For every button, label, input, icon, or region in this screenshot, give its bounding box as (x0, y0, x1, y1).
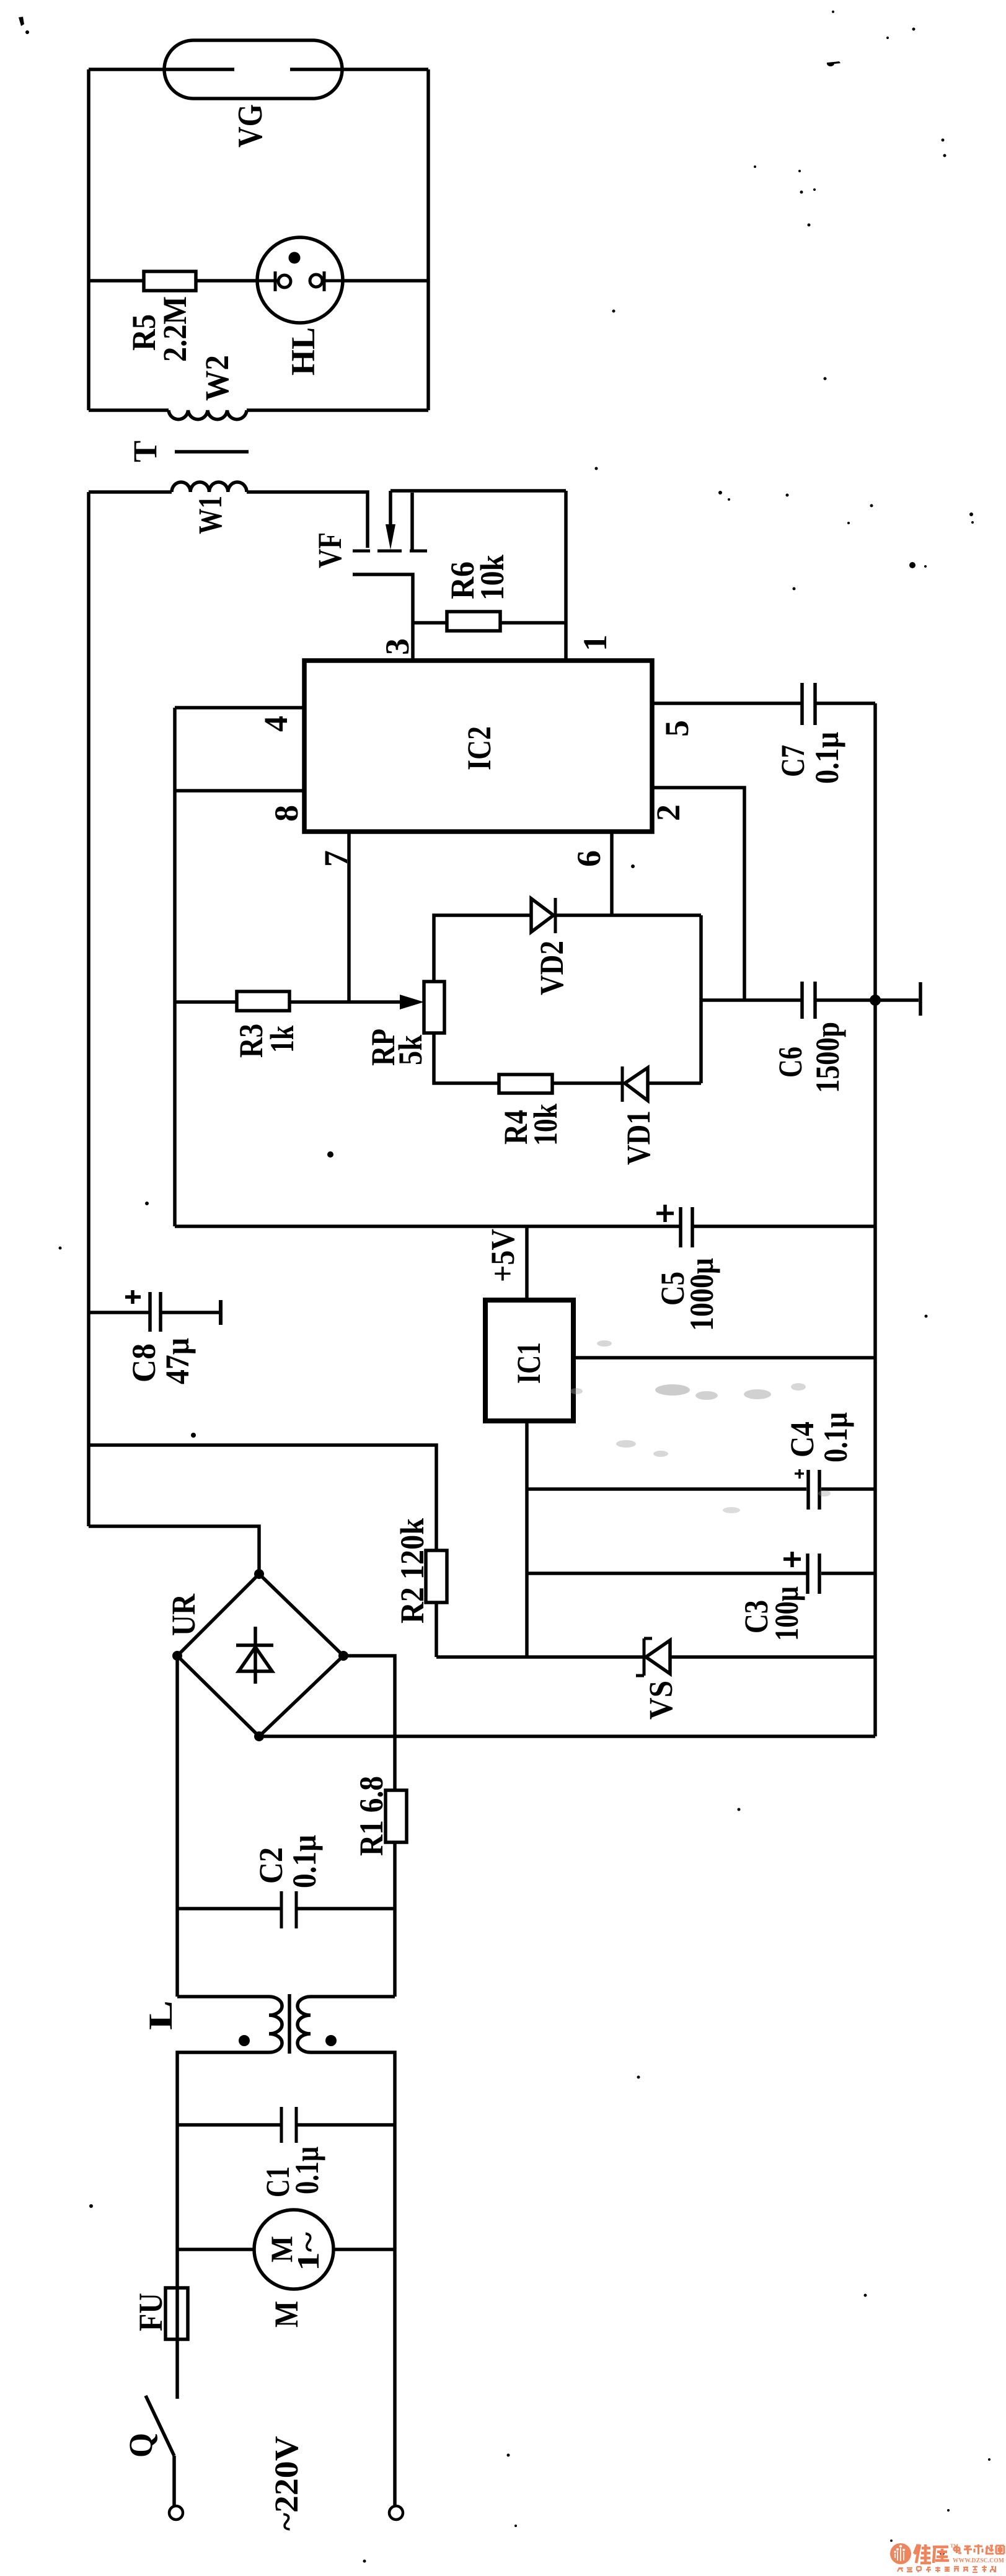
svg-text:C8: C8 (125, 1343, 162, 1383)
svg-text:C2: C2 (252, 1847, 289, 1884)
choke upper-right line (311, 1995, 395, 1998)
wire: motor line right (333, 2248, 395, 2251)
junction dot (870, 995, 881, 1006)
wire: R3 to RP wiper (289, 1000, 403, 1004)
wire: right rail (873, 703, 877, 1736)
svg-text:1: 1 (576, 635, 614, 651)
wire: top edge to VF drain (247, 492, 368, 548)
C8 end terminal bar (219, 1300, 223, 1325)
wire: motor line left (177, 2248, 254, 2251)
svg-text:1~: 1~ (291, 2232, 325, 2271)
svg-text:0.1μ: 0.1μ (288, 2147, 325, 2194)
wire: C8 stub (89, 1311, 150, 1314)
choke lower-right line (311, 2052, 395, 2125)
bridge inner diode (236, 1627, 273, 1684)
wire: pin3 to R6 (413, 621, 447, 625)
svg-text:R1 6.8: R1 6.8 (353, 1776, 390, 1856)
svg-text:5k: 5k (392, 1035, 429, 1065)
wire: bottom edge of upper loop, left part (89, 408, 169, 412)
svg-text:L: L (142, 2000, 179, 2030)
svg-text:1k: 1k (263, 1026, 301, 1053)
wire: VD2 to corner (554, 913, 701, 917)
svg-text:WWW.DZSC.COM: WWW.DZSC.COM (953, 2557, 1004, 2564)
svg-text:10k: 10k (527, 1104, 564, 1146)
slogan row (898, 2565, 995, 2572)
wire: pin 1 vertical (564, 491, 568, 661)
wire: C5 to right rail (692, 1224, 875, 1228)
resistor R5 (144, 271, 196, 291)
capacitor C6 (802, 982, 815, 1019)
C3 plus sign (783, 1552, 801, 1567)
choke L core (288, 1994, 291, 2054)
IC2 box (304, 661, 652, 832)
wire: R2 branch top (89, 1445, 436, 1551)
motor M circle (254, 2210, 333, 2289)
IC1 box (485, 1300, 573, 1421)
zener diode VS (636, 1638, 652, 1676)
wire: C6 to ground junction (815, 998, 919, 1002)
bridge rectifier UR diamond (177, 1574, 343, 1736)
svg-text:C7: C7 (774, 745, 811, 777)
wire: R5 to HL lamp (196, 279, 258, 283)
choke polarity dots (239, 2035, 250, 2046)
capacitor C4 (808, 1470, 819, 1510)
discharge tube VG envelope (164, 40, 342, 99)
wire: pin 8 (175, 789, 304, 793)
svg-text:C4: C4 (783, 1422, 821, 1457)
wire: VF gate top line to pin1 net (390, 489, 566, 493)
resistor R1 (386, 1790, 407, 1842)
C5 plus sign (656, 1205, 674, 1222)
svg-text:1500p: 1500p (809, 1022, 846, 1093)
ground terminal bar (919, 982, 922, 1016)
svg-text:C6: C6 (772, 1047, 809, 1078)
capacitor C1 (281, 2107, 296, 2143)
svg-text:2: 2 (650, 804, 687, 821)
svg-text:~220V: ~220V (268, 2436, 305, 2531)
wire: left rail corner to bridge top (89, 1526, 259, 1574)
svg-text:8: 8 (268, 805, 305, 822)
wire: R3 line from left rail (175, 1000, 237, 1004)
resistor R2 (426, 1550, 447, 1602)
wire: bridge bottom rail (259, 1734, 875, 1738)
wire: left lead to fuse (175, 2249, 179, 2399)
resistor R4 (499, 1075, 552, 1093)
svg-text:T: T (126, 441, 164, 462)
svg-text:100μ: 100μ (768, 1586, 805, 1641)
svg-text:+5V: +5V (484, 1229, 521, 1282)
svg-text:R2 120k: R2 120k (394, 1518, 431, 1624)
wire: VF source strip to pin 3 (353, 574, 413, 661)
svg-text:5: 5 (658, 720, 695, 737)
wire: C4 to rail (821, 1487, 875, 1491)
wire: verticals to choke (177, 1909, 395, 1997)
wire: pin 6 vertical (610, 832, 614, 915)
big char 2 (ku) (933, 2547, 948, 2563)
WATERMARK (940, 2551, 945, 2556)
choke L right winding (298, 1997, 311, 2052)
wire: R2 bottom to VS rail (435, 1602, 438, 1657)
svg-text:0.1μ: 0.1μ (286, 1835, 323, 1888)
logo circle (890, 2543, 911, 2564)
svg-text:6: 6 (570, 850, 607, 867)
switch Q blade (146, 2396, 174, 2456)
wire: left vertical from pin4 down (173, 708, 177, 1226)
wire: top edge right electrode (290, 68, 428, 71)
resistor R6 (447, 612, 500, 631)
svg-text:2.2M: 2.2M (156, 296, 193, 362)
wire: R4 to VD1 (552, 1081, 622, 1085)
wire: HL to right edge (342, 279, 428, 283)
diode VD1 (621, 1066, 624, 1102)
wire: pin 5 to C7 (652, 701, 801, 705)
mosfet VF gate bar (377, 550, 402, 553)
wire: C6 line (701, 998, 801, 1002)
capacitor C3 (808, 1554, 819, 1594)
wire: RP bottom lead to R4 line (434, 1033, 499, 1083)
wire: RP top lead to VD2 line (434, 915, 531, 982)
wire: +5V rail left part (175, 1224, 679, 1228)
svg-text:FU: FU (132, 2293, 169, 2331)
svg-text:4: 4 (257, 716, 294, 732)
svg-text:VS: VS (642, 1681, 679, 1720)
svg-text:3: 3 (379, 638, 416, 655)
mosfet VF drain bar (353, 550, 370, 553)
wire: R1 to C2 line (393, 1842, 397, 1909)
mosfet VF source bar (410, 550, 427, 553)
wire: C2 line (177, 1907, 395, 1910)
wire: upper-right vertical edge (426, 69, 430, 410)
svg-text:VF: VF (311, 532, 348, 568)
wire: C4 line (527, 1487, 806, 1491)
capacitor C2 (281, 1891, 296, 1928)
svg-text:M: M (268, 2301, 305, 2328)
HL left electrode (258, 271, 278, 291)
svg-text:1000μ: 1000μ (683, 1258, 720, 1331)
bridge vertex dots (254, 1569, 264, 1579)
wire: pin 2 to corner (652, 788, 744, 1000)
wire: top edge left electrode (89, 68, 234, 71)
svg-text:VD1: VD1 (620, 1110, 657, 1165)
wire: main left rail (87, 492, 90, 1526)
wire: bridge left vertex down (175, 1656, 179, 1909)
wire: pin 7 vertical (347, 832, 351, 1002)
wire: pin 4 (175, 706, 304, 710)
diode VD2 (531, 899, 554, 932)
wire: C8 to end bar (161, 1311, 219, 1314)
capacitor C7 (802, 683, 815, 725)
transformer T core (175, 450, 249, 454)
wire: lower loop top edge left (89, 490, 172, 494)
svg-text:0.1μ: 0.1μ (817, 1412, 854, 1462)
svg-text:W2: W2 (198, 355, 236, 401)
big char 1 (wei) (914, 2544, 949, 2563)
wire: upper-left vertical edge (87, 69, 90, 410)
svg-text:47μ: 47μ (159, 1338, 196, 1384)
svg-text:7: 7 (317, 850, 355, 867)
terminal circle left (169, 2506, 183, 2520)
wire: IC1 bottom vertical (525, 1420, 529, 1657)
wire: right lead down (393, 2249, 397, 2506)
capacitor C5 (681, 1207, 692, 1247)
wire: right edge of VD rect (699, 915, 703, 1083)
svg-text:VD2: VD2 (533, 941, 570, 995)
choke L left winding (269, 1997, 282, 2052)
wire: VS rail (436, 1655, 875, 1659)
wire: C7 to right rail (815, 701, 875, 705)
C8 plus sign (125, 1290, 141, 1304)
svg-text:0.1μ: 0.1μ (808, 732, 845, 784)
winding W2 (169, 410, 247, 420)
wire: +5V vertical into IC1 (525, 1226, 529, 1301)
wire: bottom edge of upper loop, right part (247, 408, 428, 412)
svg-text:10k: 10k (474, 555, 511, 600)
wire: bridge right vertex to R1 (343, 1656, 395, 1790)
svg-text:HL: HL (285, 327, 322, 376)
resistor R3 (237, 991, 289, 1011)
mosfet VF substrate arrow line (389, 491, 392, 528)
svg-text:IC2: IC2 (461, 726, 498, 770)
wire: mid line left to R5 (89, 279, 144, 283)
capacitor C8 (150, 1292, 161, 1332)
RP wiper arrowhead (400, 995, 424, 1009)
wire: R6 to pin1 net (500, 621, 566, 625)
wire: C3 to rail (821, 1572, 875, 1575)
wire: IC1 right pin to rail (572, 1356, 875, 1360)
neon lamp HL envelope (257, 237, 343, 323)
potentiometer RP (424, 982, 444, 1033)
wire: VF source vertical (410, 493, 414, 551)
small row: 电子市场网 (954, 2544, 1004, 2554)
svg-text:VG: VG (231, 104, 270, 147)
wire: switch to terminal (172, 2456, 176, 2506)
svg-text:W1: W1 (192, 496, 229, 534)
wire: verticals to motor line (177, 2125, 395, 2249)
winding W1 (172, 482, 247, 492)
wire: VD1 to corner (648, 1081, 701, 1085)
wire: C1 line (177, 2123, 395, 2127)
svg-text:Q: Q (122, 2433, 159, 2458)
HL inner dot (289, 252, 301, 264)
fuse FU (165, 2288, 188, 2339)
mosfet VF arrowhead (386, 524, 395, 550)
svg-text:UR: UR (165, 1593, 202, 1636)
choke L upper-left line (177, 1995, 269, 1998)
terminal circle right (389, 2506, 403, 2520)
HL right electrode (310, 275, 322, 287)
wire: C3 line (527, 1572, 806, 1575)
svg-text:IC1: IC1 (510, 1342, 547, 1384)
choke lower-left line (177, 2052, 269, 2125)
